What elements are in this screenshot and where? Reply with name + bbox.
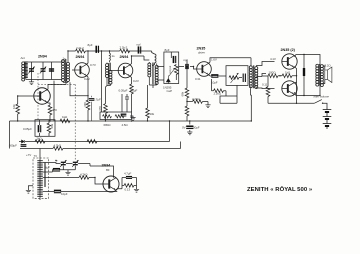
svg-text:2.2k-2: 2.2k-2 [120, 46, 128, 50]
trimmer cap T1 [60, 160, 66, 167]
wire emitters to switch line [296, 82, 298, 103]
cap 0.05 in conv box [39, 125, 41, 132]
svg-text:8μF: 8μF [165, 48, 170, 52]
wire T4 center tap [256, 74, 266, 77]
svg-text:470: 470 [83, 102, 87, 107]
svg-text:BF: BF [106, 168, 110, 172]
resistor 10k osc base [16, 104, 20, 114]
resistor 2.2k top1 [76, 49, 86, 53]
wire collector Qc [47, 82, 66, 90]
wire battery bottom [326, 127, 328, 129]
svg-text:1s: 1s [63, 57, 67, 61]
bypass caps under stage [122, 94, 129, 112]
capacitor emitter bypass [91, 96, 93, 121]
svg-text:2N94: 2N94 [38, 55, 48, 59]
svg-text:10k: 10k [150, 112, 155, 116]
transistor Q2 2N94 [118, 63, 133, 78]
svg-text:500μF: 500μF [9, 144, 17, 148]
ground 50uF [187, 132, 192, 135]
wire emitter Q3 down [209, 75, 210, 76]
svg-text:0.05μF: 0.05μF [23, 127, 32, 131]
capacitor trimmer C3 [49, 69, 54, 71]
cap in box [121, 114, 127, 116]
svg-text:2N35 (2): 2N35 (2) [281, 48, 296, 52]
wire base Q6 [95, 178, 103, 185]
svg-text:1kΩ: 1kΩ [285, 71, 291, 75]
svg-text:8.2Ω: 8.2Ω [325, 64, 332, 68]
detector box [164, 52, 179, 84]
wire emitter Qc [47, 102, 50, 105]
wire base Q2 [111, 70, 119, 72]
svg-text:68k: 68k [50, 123, 54, 128]
svg-text:Inter volume: Inter volume [314, 95, 330, 99]
oscillator coil windings [37, 160, 45, 198]
electrolytic 8uF on line [96, 46, 98, 53]
antenna ferrite coil L1 [22, 62, 28, 82]
capacitor 10uF driver [211, 75, 218, 77]
wire emitter Q6 [116, 189, 122, 190]
svg-text:0.13: 0.13 [125, 188, 131, 192]
svg-text:1.6V: 1.6V [211, 58, 217, 62]
transistor Q1 2N94 [75, 63, 90, 78]
svg-text:1s: 1s [112, 54, 116, 58]
wire base Q3 [194, 67, 197, 70]
small coupling coil at T2 top [109, 51, 112, 62]
conv emitter RC box [35, 120, 55, 137]
resistor Q6 [124, 184, 134, 188]
svg-text:0.05μF: 0.05μF [119, 89, 128, 93]
IF transformer T3 [148, 62, 158, 85]
resistor top2 [120, 49, 130, 53]
svg-text:7V: 7V [34, 154, 38, 158]
trimmer cap T2 [72, 160, 78, 167]
resistor bias 2 [282, 74, 292, 78]
wire from emitter node to box [210, 75, 226, 77]
resistor output bias vertical [267, 76, 269, 87]
coil taps [40, 149, 79, 201]
capacitor coupling npf2 [186, 64, 188, 69]
switch inter volume [314, 100, 322, 104]
wire base Q1 [72, 69, 75, 71]
transistor Q6 2N94 [103, 176, 119, 192]
wire T2 bottoms [106, 86, 111, 122]
wire collector Q3 to T4 [209, 58, 251, 66]
wire tuning to bus [53, 81, 55, 121]
svg-text:CeP: CeP [167, 89, 173, 93]
cap 8uF osc [53, 169, 60, 171]
resistor 4.7k AF [79, 176, 89, 180]
wire T1 top to B+ line [67, 51, 69, 58]
resistor 68k in conv box [47, 123, 51, 133]
transistor Qc 2N94 [34, 88, 50, 104]
transistor Q5 2N35 [282, 81, 297, 96]
wire collector Q6 up [90, 164, 114, 178]
svg-text:0V: 0V [182, 126, 186, 130]
svg-text:+7V: +7V [26, 153, 31, 157]
svg-text:0.31: 0.31 [195, 77, 201, 81]
resistor 470 T2 return [104, 104, 108, 114]
resistor 680 bus B right [87, 140, 97, 144]
transistor Q4 2N35 [282, 54, 297, 69]
arrow in box [231, 73, 239, 83]
wire T4 primary bottom to bus [250, 89, 253, 122]
RC network right of Q6 [122, 178, 137, 190]
wires trimmers [56, 163, 90, 170]
svg-text:0.7V: 0.7V [90, 63, 96, 67]
ground (tuning) [29, 82, 34, 85]
wire T3 bottom [149, 85, 156, 88]
transistor Q3 2N35 [197, 62, 212, 77]
electrolytic on left [21, 145, 27, 147]
resistor below T3 [147, 85, 149, 108]
svg-text:2.2kΩ: 2.2kΩ [214, 92, 222, 96]
svg-text:10μF: 10μF [211, 81, 218, 85]
capacitor npf on line [139, 46, 141, 53]
thermistor line [303, 55, 305, 96]
volume box [226, 66, 248, 86]
variable capacitor CV2 [40, 67, 46, 74]
volume potentiometer [175, 65, 179, 75]
bus B [25, 121, 170, 142]
svg-text:8μF: 8μF [45, 166, 50, 170]
wire tuning box top [26, 62, 62, 80]
wire detector to driver base [179, 60, 194, 67]
svg-text:0.1μF: 0.1μF [130, 89, 137, 93]
svg-text:2N94: 2N94 [76, 55, 86, 59]
svg-text:2kΩ: 2kΩ [37, 137, 43, 141]
wire T4 sec top to Q4 base [256, 62, 274, 66]
svg-text:ZENITH « RŌYAL 500 »: ZENITH « RŌYAL 500 » [247, 186, 313, 193]
wire emitter Q1 down to resistor [87, 76, 88, 100]
svg-text:470: 470 [52, 108, 57, 112]
resistor emitter Q2 [130, 84, 134, 94]
capacitor plates in box [243, 74, 245, 83]
svg-text:npf: npf [184, 58, 188, 62]
resistor driver emitter 2.2k [212, 79, 227, 96]
svg-text:driver: driver [198, 51, 206, 55]
svg-text:Ant: Ant [21, 56, 25, 60]
battery B1 [323, 108, 332, 127]
IF transformer T2 [106, 63, 113, 86]
wire switch to battery [323, 103, 327, 107]
wire verticals tuning [32, 62, 52, 80]
speaker [325, 67, 332, 83]
ground Q6 [134, 189, 139, 192]
diode at bus B left [22, 140, 25, 143]
svg-text:10μF: 10μF [61, 192, 68, 196]
svg-text:4.7μF: 4.7μF [124, 172, 131, 176]
resistor in box 2 [115, 115, 124, 118]
gang dashed line [37, 73, 39, 120]
transformer T1 [62, 58, 70, 82]
svg-text:2.2kΩ: 2.2kΩ [192, 97, 200, 101]
resistor in box [229, 76, 239, 80]
cap 4.7uF [126, 177, 132, 179]
resistor bias 100 [268, 74, 278, 78]
svg-text:0.2V: 0.2V [84, 77, 90, 81]
svg-text:4.5Ω: 4.5Ω [122, 123, 129, 127]
resistor in box 1 [103, 115, 112, 118]
ground trimmer [65, 172, 70, 175]
emitter network box Q2 [100, 112, 132, 120]
wire emitters join [294, 67, 296, 84]
wire emitter Q2 down [130, 76, 131, 84]
wire collector Q1 up [87, 51, 88, 64]
resistor Qc emitter [48, 105, 52, 115]
resistor 4.7k bus C [20, 148, 53, 150]
svg-text:50μF: 50μF [193, 126, 200, 130]
svg-text:0.7μF: 0.7μF [94, 98, 101, 102]
gang dashed line 2 [38, 84, 75, 160]
svg-text:4.7kΩ: 4.7kΩ [80, 173, 88, 177]
svg-text:2.2k-2: 2.2k-2 [76, 46, 84, 50]
bus A (AVC/supply) [10, 120, 252, 122]
resistor 2k bus B [35, 140, 45, 144]
cap 10uF [54, 191, 61, 193]
wire T1 bottom to gnd line [63, 81, 68, 83]
capacitor in detector [174, 56, 176, 63]
wire Q5 collector to T5 bottom [294, 86, 320, 96]
wire collector Q2 [130, 56, 149, 65]
thermistor blob [303, 68, 305, 76]
variable capacitor CV1 [28, 67, 34, 74]
ground at box [130, 118, 135, 121]
svg-text:4.7kΩ: 4.7kΩ [54, 144, 62, 148]
svg-text:4.1V: 4.1V [270, 57, 276, 61]
svg-text:1kΩ: 1kΩ [62, 115, 68, 119]
svg-text:100Ω: 100Ω [269, 71, 277, 75]
svg-text:10k: 10k [12, 104, 16, 109]
resistor inline bus A [60, 119, 70, 123]
wire trimmer common [53, 170, 76, 172]
coupling coil T3 top [152, 54, 156, 66]
wire B+ top feed [68, 51, 155, 54]
resistor R emitter Q1 [86, 100, 90, 110]
wire to switch [268, 102, 314, 104]
wire left edge vertical [10, 96, 18, 149]
svg-text:8μF: 8μF [88, 43, 93, 47]
osc feedback wire [70, 82, 88, 96]
cap 50uF to gnd [189, 121, 191, 132]
svg-text:2N94: 2N94 [120, 55, 130, 59]
ground bottom coil [26, 190, 31, 193]
svg-text:0.11: 0.11 [262, 83, 268, 87]
svg-text:npf: npf [137, 43, 141, 47]
resistor driver emitter [193, 100, 203, 104]
svg-text:470: 470 [98, 106, 102, 111]
diode 1N295 [166, 76, 170, 84]
wire T4 sec bottom to Q5 base [256, 87, 274, 90]
wire supply branch to emitter network [101, 51, 103, 112]
wire Q_conv base [18, 95, 34, 97]
wire box bottom down [220, 85, 237, 103]
resistor bias 68k vertical [186, 67, 188, 89]
dashed box oscillator coil [33, 158, 49, 198]
wire Q4 collector to T5 [294, 55, 320, 65]
svg-text:0.2V: 0.2V [133, 79, 139, 83]
svg-text:68k: 68k [181, 91, 185, 96]
ground driver [205, 105, 210, 108]
wire bias chain [262, 75, 297, 77]
svg-text:680Ω: 680Ω [104, 123, 112, 127]
